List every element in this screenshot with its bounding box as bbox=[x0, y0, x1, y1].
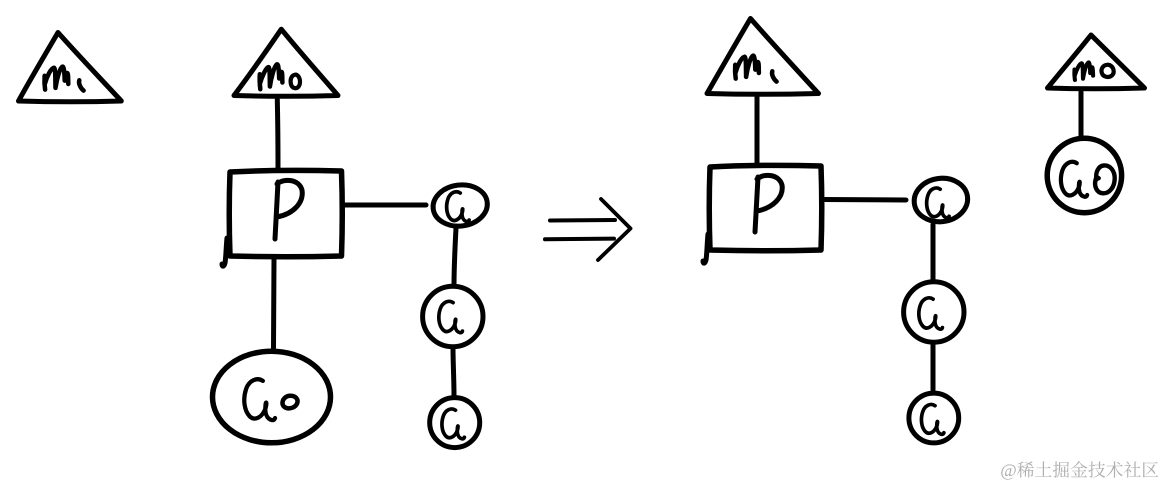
label M0 left subscript o bbox=[291, 75, 300, 88]
box P left pen tick bbox=[222, 238, 227, 266]
triangle M1 right bbox=[707, 19, 819, 95]
node G3 bottom left chain bbox=[430, 398, 480, 448]
arrow implies top bar bbox=[550, 218, 615, 223]
label M1 left subscript tick bbox=[79, 80, 84, 90]
box P left bbox=[229, 170, 342, 256]
label M0 left bbox=[260, 64, 283, 89]
node G0 left bbox=[213, 351, 331, 443]
label M1 right subscript tick bbox=[772, 71, 777, 81]
node G0 top right bbox=[1047, 138, 1121, 212]
node G2 right chain bbox=[904, 282, 964, 342]
label G0 right o bbox=[1095, 165, 1115, 193]
wire G1 to G2 left chain bbox=[454, 228, 456, 286]
label G0 left o bbox=[282, 396, 297, 409]
label P left bbox=[275, 180, 302, 239]
node G2 middle left chain bbox=[423, 286, 483, 346]
wire P to G0 left bbox=[271, 258, 277, 348]
label M0 top right m bbox=[1074, 62, 1093, 79]
label G2 right bbox=[919, 298, 943, 329]
label G1 bbox=[447, 192, 469, 222]
label M0 top right o bbox=[1101, 65, 1113, 77]
box P right bbox=[709, 165, 822, 250]
wire G2 to G3 left chain bbox=[453, 347, 454, 396]
wire M1 to P right bbox=[755, 96, 760, 165]
label G0 left G bbox=[244, 379, 275, 420]
wire M0 to G0 right bbox=[1079, 92, 1084, 136]
wire G1 to G2 right chain bbox=[931, 225, 936, 281]
label G3 right bbox=[921, 404, 943, 434]
label G1 right bbox=[927, 188, 949, 218]
label M1 left bbox=[44, 67, 68, 90]
label G0 right G bbox=[1061, 162, 1087, 197]
arrow implies bottom bar bbox=[545, 237, 614, 242]
node G3 right chain bbox=[909, 393, 959, 443]
arrow implies head bbox=[598, 199, 631, 260]
triangle M0 top right bbox=[1048, 35, 1145, 89]
node G1 top left chain bbox=[431, 182, 490, 229]
wire M0 to P bbox=[275, 100, 281, 170]
wire P to G chain left bbox=[344, 203, 426, 208]
label G2 bbox=[439, 301, 463, 332]
label M1 right bbox=[735, 56, 759, 79]
wire G2 to G3 right chain bbox=[931, 344, 936, 390]
node G1 right chain bbox=[912, 175, 970, 225]
label G3 bbox=[442, 409, 464, 439]
triangle M1 left bbox=[19, 33, 122, 102]
label P right bbox=[755, 175, 782, 232]
box P right pen tick bbox=[703, 234, 708, 263]
wire P to G chain right bbox=[823, 197, 906, 203]
triangle M0 left bbox=[234, 29, 338, 96]
